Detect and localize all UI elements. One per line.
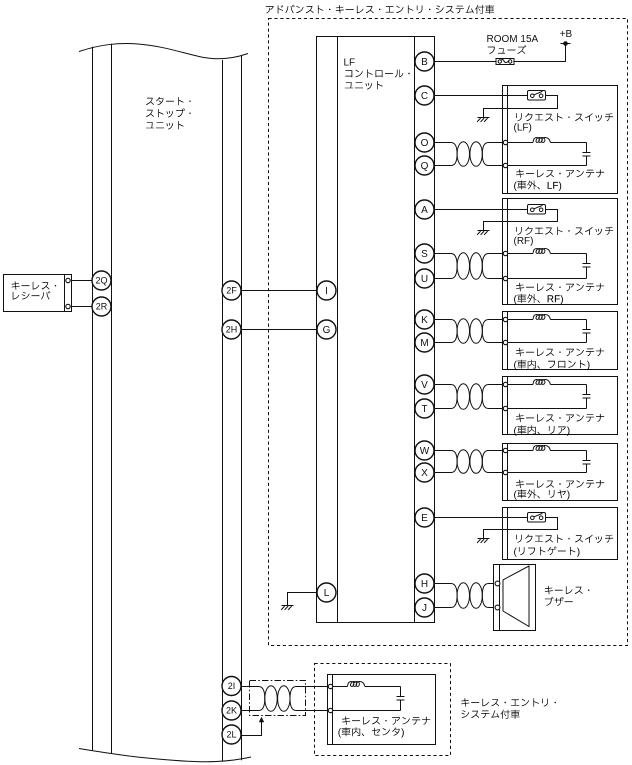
keyless antenna (center interior) label — [338, 716, 430, 737]
+B label — [560, 29, 573, 40]
capacitor in front interior antenna — [583, 320, 591, 343]
keyless antenna (rear exterior) label — [514, 480, 604, 500]
keyless antenna (front interior) circuit — [508, 314, 587, 342]
buzzer terminal upper — [495, 581, 500, 586]
svg-text:(RF): (RF) — [514, 236, 534, 247]
pin E — [415, 508, 434, 527]
svg-text:W: W — [420, 446, 430, 457]
pin 2I — [222, 677, 241, 696]
wire O/Q to LF antenna (twisted pair) — [435, 142, 504, 167]
wire S/U to RF antenna (twisted pair) — [435, 253, 504, 280]
keyless antenna (LF) label — [514, 169, 604, 191]
keyless entry system boundary (dashed) — [315, 664, 451, 756]
svg-text:U: U — [421, 274, 428, 285]
wire E to liftgate request switch — [435, 517, 528, 519]
svg-text:J: J — [422, 603, 427, 614]
request switch (RF) label — [514, 227, 614, 247]
svg-text:C: C — [421, 91, 428, 102]
svg-text:H: H — [421, 579, 428, 590]
pin 2Q — [92, 271, 111, 290]
wire receiver to pin 2Q — [72, 280, 93, 282]
rear exterior antenna terminal lower — [503, 470, 507, 474]
keyless antenna (LF) circuit — [508, 137, 587, 165]
pin U — [415, 269, 434, 288]
svg-text:2F: 2F — [226, 286, 237, 296]
keyless antenna (rear exterior) circuit — [508, 445, 587, 472]
request switch (liftgate) — [528, 513, 546, 523]
keyless antenna (front interior) label — [514, 348, 604, 370]
pin J — [415, 598, 434, 617]
svg-text:K: K — [421, 315, 428, 326]
request switch (RF) — [528, 205, 546, 215]
capacitor in rear exterior antenna — [583, 451, 591, 473]
pin G — [317, 320, 336, 339]
svg-text:A: A — [421, 205, 428, 216]
svg-text:X: X — [421, 468, 428, 479]
wire A to RF request switch — [435, 209, 528, 211]
wire B to fuse — [435, 61, 497, 63]
ground at LF request switch — [477, 118, 489, 122]
request switch (liftgate) enclosure — [503, 508, 618, 560]
svg-text:(LF): (LF) — [514, 122, 532, 133]
advanced keyless entry system boundary label — [266, 5, 494, 14]
svg-text:V: V — [421, 380, 428, 391]
keyless antenna (rear interior) label — [514, 414, 604, 436]
fuse label — [487, 34, 539, 54]
advanced keyless entry system boundary (dashed) — [269, 19, 628, 646]
svg-text:O: O — [421, 138, 429, 149]
keyless receiver label — [12, 281, 57, 299]
svg-text:ROOM 15A: ROOM 15A — [487, 34, 539, 45]
LF control unit U1 — [317, 37, 435, 623]
keyless antenna (front interior) enclosure — [503, 312, 618, 370]
pin 2K — [222, 701, 241, 720]
pin V — [415, 375, 434, 394]
pin H — [415, 574, 434, 593]
svg-text:L: L — [324, 588, 330, 599]
RF antenna terminal upper — [503, 251, 507, 255]
keyless antenna (RF) label — [514, 283, 604, 304]
center antenna terminal upper — [328, 684, 332, 688]
ground at liftgate request switch — [477, 539, 489, 543]
rear interior antenna terminal upper — [503, 382, 507, 386]
terminal on receiver (lower) — [66, 304, 70, 308]
wire 2F to I — [241, 290, 317, 292]
keyless antenna (RF) circuit — [508, 248, 587, 278]
capacitor in center antenna — [397, 687, 405, 711]
svg-text:B: B — [421, 57, 428, 68]
keyless antenna (rear exterior) enclosure — [503, 444, 618, 501]
pin M — [415, 333, 434, 352]
wire 2L to shield drain (arrow) — [241, 717, 264, 736]
keyless entry system boundary label — [461, 698, 556, 718]
pin 2L — [222, 725, 241, 744]
pin I — [317, 281, 336, 300]
rear interior antenna terminal lower — [503, 406, 507, 410]
buzzer terminal lower — [495, 605, 500, 610]
pin K — [415, 310, 434, 329]
request switch (liftgate) label — [514, 535, 613, 557]
terminal on receiver (upper) — [66, 278, 70, 282]
rear exterior antenna terminal upper — [503, 448, 507, 452]
request switch (LF) label — [514, 113, 614, 133]
capacitor in RF antenna — [583, 254, 591, 279]
shielding (dash-dot boundary) — [250, 681, 306, 716]
pin X — [415, 463, 434, 482]
wire C to LF request switch — [435, 95, 528, 97]
wire L to ground — [288, 593, 317, 606]
keyless antenna (center interior) enclosure — [328, 675, 436, 745]
svg-text:S: S — [421, 249, 428, 260]
svg-text:2I: 2I — [228, 681, 236, 691]
svg-text:E: E — [421, 513, 428, 524]
wire receiver to pin 2R — [72, 306, 93, 308]
start/stop unit (torn band outline) — [79, 44, 251, 762]
keyless antenna (rear interior) circuit — [508, 379, 587, 408]
keyless buzzer label — [545, 586, 590, 606]
svg-text:LF: LF — [344, 58, 356, 69]
keyless receiver — [4, 275, 72, 312]
twisted pair to rear exterior antenna — [435, 450, 504, 474]
pin 2H — [222, 320, 241, 339]
LF antenna terminal upper — [503, 140, 507, 144]
RF antenna terminal lower — [503, 276, 507, 280]
keyless antenna (center interior) circuit — [333, 681, 401, 710]
twisted pair to rear interior antenna — [435, 384, 504, 410]
svg-text:2L: 2L — [226, 730, 236, 740]
pin O — [415, 133, 434, 152]
front interior antenna terminal lower — [503, 340, 507, 344]
pin W — [415, 441, 434, 460]
pin A — [415, 200, 434, 219]
pin T — [415, 399, 434, 418]
+B power terminal — [561, 41, 571, 46]
wire 2H to G — [241, 329, 317, 331]
svg-text:I: I — [325, 286, 328, 297]
keyless antenna (rear interior) enclosure — [503, 377, 618, 435]
svg-text:2R: 2R — [96, 302, 108, 312]
request switch / keyless antenna (LF) enclosure — [503, 86, 618, 194]
pin C — [415, 86, 434, 105]
svg-text:+B: +B — [560, 29, 573, 40]
request switch / keyless antenna (RF) enclosure — [503, 199, 618, 305]
svg-text:Q: Q — [421, 161, 429, 172]
LF antenna terminal lower — [503, 163, 507, 167]
front interior antenna terminal upper — [503, 317, 507, 321]
svg-text:M: M — [420, 338, 428, 349]
svg-text:2Q: 2Q — [95, 276, 107, 286]
ground at pin L — [281, 606, 293, 610]
wire RF switch to ground — [484, 210, 558, 231]
svg-text:2H: 2H — [226, 325, 238, 335]
wire LF switch to ground — [484, 96, 558, 118]
pin S — [415, 244, 434, 263]
ground at RF request switch — [477, 231, 489, 235]
pin 2R — [92, 297, 111, 316]
capacitor in LF antenna — [583, 143, 591, 166]
capacitor in rear interior antenna — [583, 385, 591, 409]
pin Q — [415, 156, 434, 175]
fuse ROOM 15A — [496, 59, 514, 65]
start/stop unit label — [146, 97, 191, 130]
svg-text:2K: 2K — [226, 706, 237, 716]
keyless buzzer — [494, 565, 536, 631]
twisted pair to front interior antenna — [435, 319, 504, 344]
wire liftgate switch to ground — [484, 518, 558, 539]
pin 2F — [222, 281, 241, 300]
wire H/J to buzzer (twisted pair) — [435, 583, 496, 609]
wire fuse to +B — [514, 44, 566, 62]
svg-text:T: T — [421, 404, 427, 415]
wire 2I/2K to center antenna (twisted pair) — [241, 686, 329, 712]
pin L — [317, 583, 336, 602]
pin B — [415, 52, 434, 71]
svg-text:G: G — [323, 325, 331, 336]
center antenna terminal lower — [328, 708, 332, 712]
request switch (LF) — [528, 91, 546, 101]
LF control unit label — [344, 58, 410, 90]
